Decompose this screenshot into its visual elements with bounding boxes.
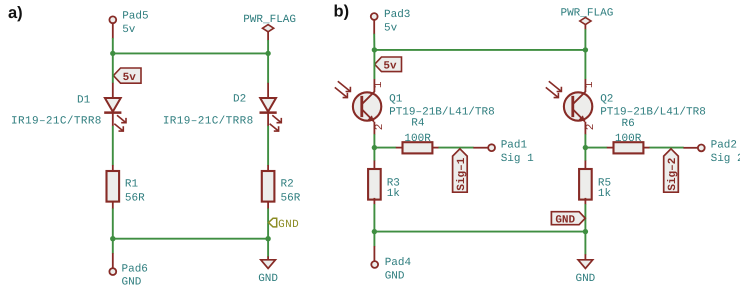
pin 1 of R2: [267, 165, 269, 171]
svg-text:56R: 56R: [281, 192, 301, 204]
svg-text:IR19–21C/TRR8: IR19–21C/TRR8: [11, 115, 102, 127]
wire bus to Q1: [373, 50, 375, 79]
svg-text:2: 2: [374, 124, 386, 131]
wire PWR_FLAG to bus: [267, 40, 269, 53]
wire top bus a: [113, 52, 268, 54]
wire R3 to bottom bus: [373, 204, 375, 232]
wire Pad3 to bus: [373, 34, 375, 50]
pin of GND power symbol (a): [267, 256, 269, 260]
svg-text:a): a): [8, 4, 23, 22]
svg-text:5v: 5v: [384, 23, 398, 35]
svg-text:Q1: Q1: [389, 93, 403, 105]
pad Pad6: [109, 268, 116, 275]
ground GND (b): [575, 260, 595, 285]
svg-text:1: 1: [584, 81, 596, 88]
svg-text:Pad5: Pad5: [122, 11, 148, 23]
global label 5v (b): [375, 57, 402, 73]
pin of Pad6: [112, 253, 114, 268]
pin 2 (emitter) of Q1: [373, 122, 375, 135]
pad Pad4: [371, 261, 378, 268]
svg-text:Pad1: Pad1: [501, 140, 528, 152]
junction b-top-right: [583, 47, 588, 52]
wire R2 to bottom bus: [267, 208, 269, 238]
svg-text:GND: GND: [555, 214, 575, 226]
junction b-mid-right: [583, 145, 588, 150]
pin 2 of R2: [267, 201, 269, 209]
svg-text:GND: GND: [122, 277, 142, 289]
pin anode D1: [112, 83, 114, 98]
pin of Pad5: [112, 23, 114, 38]
pin 1 of R6: [607, 147, 614, 149]
svg-text:56R: 56R: [125, 192, 145, 204]
pin of Pad2: [683, 147, 697, 149]
svg-text:PWR_FLAG: PWR_FLAG: [243, 14, 296, 26]
resistor R1: [107, 171, 120, 202]
resistor R4: [403, 142, 433, 153]
resistor R3: [368, 169, 381, 200]
svg-text:Sig–2: Sig–2: [667, 158, 679, 191]
pin of GND power symbol (b): [584, 254, 586, 260]
svg-text:5v: 5v: [123, 72, 137, 84]
pad Pad1: [488, 144, 495, 151]
junction b-top-left: [372, 47, 377, 52]
svg-text:Sig 2: Sig 2: [711, 153, 740, 165]
wire junction to R5: [584, 148, 586, 161]
wire R6 to Pad2: [650, 147, 684, 149]
junction a-bottom-right: [265, 236, 270, 241]
wire bus to Pad6: [112, 239, 114, 254]
svg-text:b): b): [334, 3, 350, 21]
pin 2 of R3: [373, 198, 375, 205]
global label GND (b): [551, 212, 585, 227]
svg-text:GND: GND: [385, 270, 405, 282]
wire R1 to bottom bus: [112, 208, 114, 238]
global label 5v (a): [113, 68, 141, 84]
pin 2 of R4: [432, 147, 439, 149]
pin of PWR_FLAG (b): [584, 24, 586, 29]
pin 2 (emitter) of Q2: [584, 122, 586, 135]
junction b-bottom-left: [372, 229, 377, 234]
wire D1 to R1: [112, 126, 114, 166]
svg-text:Q2: Q2: [600, 93, 613, 105]
svg-text:R2: R2: [281, 179, 294, 191]
wire bus to Q2: [584, 50, 586, 79]
wire bus to D2: [267, 53, 269, 83]
svg-text:100R: 100R: [615, 133, 642, 145]
svg-text:R6: R6: [622, 118, 635, 130]
svg-text:Pad2: Pad2: [711, 139, 737, 151]
svg-text:IR19–21C/TRR8: IR19–21C/TRR8: [163, 115, 254, 127]
wire bus to GND symbol (a): [267, 239, 269, 257]
junction a-top-right: [265, 51, 270, 56]
svg-text:GND: GND: [575, 273, 595, 285]
pin 2 of R5: [584, 198, 586, 205]
wire top bus b: [374, 49, 585, 51]
pin 1 of R4: [396, 147, 403, 149]
junction a-top-left: [110, 51, 115, 56]
junction b-mid-left: [372, 145, 377, 150]
hierarchical label GND (a): [269, 218, 300, 231]
svg-text:GND: GND: [258, 273, 278, 285]
svg-text:Pad6: Pad6: [122, 263, 148, 275]
svg-text:1k: 1k: [598, 188, 612, 200]
wire Q2 to junction: [584, 134, 586, 147]
pin 1 of R3: [373, 161, 375, 170]
pin 1 (collector) of Q1: [373, 79, 375, 92]
phototransistor Q2: [546, 81, 593, 122]
junction a-bottom-left: [110, 236, 115, 241]
svg-text:R4: R4: [411, 118, 425, 130]
svg-text:5v: 5v: [383, 61, 397, 73]
pin 2 of R1: [112, 201, 114, 209]
svg-text:D1: D1: [77, 94, 91, 106]
svg-text:Pad4: Pad4: [385, 257, 412, 269]
power flag PWR_FLAG (a): [243, 14, 296, 32]
wire R5 to bottom bus: [584, 204, 586, 232]
wire Q1 to junction: [373, 134, 375, 147]
pin of Pad3: [373, 20, 375, 34]
resistor R6: [614, 142, 644, 153]
phototransistor Q1: [335, 81, 382, 122]
global label Sig-2: [664, 149, 680, 192]
wire D2 to R2: [267, 126, 269, 166]
wire bus to Pad4: [373, 232, 375, 247]
wire to R4: [374, 147, 396, 149]
svg-text:PT19–21B/L41/TR8: PT19–21B/L41/TR8: [389, 106, 495, 118]
svg-text:2: 2: [585, 124, 597, 131]
svg-text:Pad3: Pad3: [384, 9, 410, 21]
pin of PWR_FLAG (a): [267, 31, 269, 40]
wire to R6: [585, 147, 607, 149]
pin of Pad4: [373, 246, 375, 261]
resistor R5: [579, 169, 592, 200]
junction b-bottom-right: [583, 229, 588, 234]
svg-text:Sig–1: Sig–1: [456, 157, 468, 190]
pin anode D2: [267, 83, 269, 98]
power flag PWR_FLAG (b): [560, 7, 613, 24]
wire Pad5 to bus: [112, 38, 114, 53]
global label Sig-1: [453, 149, 469, 192]
pin cathode D2: [267, 114, 269, 127]
LED D1: [104, 98, 126, 131]
svg-text:1k: 1k: [387, 188, 401, 200]
wire bus to D1: [112, 53, 114, 83]
pin 1 of R5: [584, 161, 586, 170]
svg-text:100R: 100R: [404, 133, 431, 145]
pin of Pad1: [473, 147, 488, 149]
svg-text:5v: 5v: [122, 24, 136, 36]
pin 1 (collector) of Q2: [584, 79, 586, 92]
pad Pad2: [698, 145, 705, 152]
wire bottom bus b: [374, 231, 585, 233]
pad Pad5: [109, 16, 116, 23]
wire bottom bus a: [113, 238, 268, 240]
svg-text:Sig 1: Sig 1: [501, 153, 534, 165]
ground GND (a): [258, 260, 278, 285]
wire R4 to Pad1: [439, 147, 474, 149]
svg-text:PT19–21B/L41/TR8: PT19–21B/L41/TR8: [600, 106, 706, 118]
LED D2: [260, 98, 282, 131]
svg-text:1: 1: [373, 81, 385, 88]
svg-text:R1: R1: [125, 179, 139, 191]
pad Pad3: [371, 13, 378, 20]
wire PWR_FLAG to bus: [584, 29, 586, 50]
svg-text:GND: GND: [278, 219, 299, 231]
pin 2 of R6: [643, 147, 650, 149]
wire bus to GND symbol (b): [584, 232, 586, 255]
wire junction to R3: [373, 148, 375, 161]
svg-text:D2: D2: [233, 93, 246, 105]
pin cathode D1: [112, 114, 114, 127]
pin 1 of R1: [112, 165, 114, 171]
resistor R2: [262, 171, 275, 202]
